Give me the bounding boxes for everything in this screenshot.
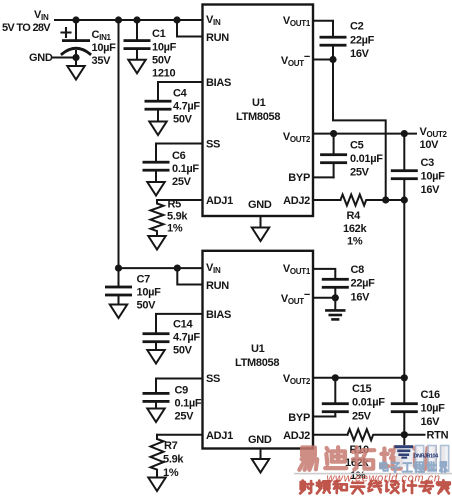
svg-text:C4: C4 — [173, 88, 188, 100]
svg-text:C3: C3 — [421, 157, 435, 169]
capacitor C2 — [320, 21, 375, 61]
svg-text:4.7µF: 4.7µF — [173, 101, 200, 113]
ground under CIN1 — [67, 58, 84, 80]
ground GND pin stage1 — [252, 216, 269, 241]
svg-text:GND: GND — [29, 52, 53, 64]
svg-text:16V: 16V — [350, 48, 370, 60]
svg-text:BIAS: BIAS — [206, 309, 231, 321]
node junction dot C3 top — [401, 130, 408, 137]
node junction dot C16 top — [401, 374, 408, 381]
ground under R7 — [148, 478, 165, 492]
svg-text:C1: C1 — [152, 28, 166, 40]
node junction dot C15 top — [332, 374, 339, 381]
svg-text:162k: 162k — [343, 223, 367, 235]
svg-text:25V: 25V — [352, 411, 372, 423]
svg-text:BYP: BYP — [288, 412, 310, 424]
svg-text:0.01µF: 0.01µF — [352, 397, 385, 409]
svg-text:25V: 25V — [172, 176, 192, 188]
svg-text:SS: SS — [206, 139, 220, 151]
resistor R4 — [341, 195, 405, 248]
svg-text:5.9k: 5.9k — [163, 454, 184, 466]
wire stage1 return down to stage2 — [403, 200, 405, 378]
svg-text:4.7µF: 4.7µF — [173, 332, 200, 344]
wire VOUT- stage2 — [313, 297, 335, 299]
node junction dot C5 top — [330, 130, 337, 137]
svg-text:10µF: 10µF — [421, 403, 446, 415]
svg-text:1210: 1210 — [152, 68, 175, 80]
watermark logo bars — [395, 445, 414, 459]
wire ADJ1 stage1 — [157, 199, 203, 201]
wire ADJ2 RTN stage2 — [313, 434, 348, 436]
svg-text:U1: U1 — [251, 343, 265, 355]
wire BIAS stage1 — [158, 82, 203, 100]
wire top input rail — [55, 19, 203, 21]
resistor R7 — [151, 435, 185, 479]
capacitor C16 — [391, 378, 445, 435]
svg-text:16V: 16V — [351, 292, 371, 304]
node junction dot C1 — [133, 16, 140, 23]
svg-text:5V TO 28V: 5V TO 28V — [2, 22, 51, 34]
svg-text:10µF: 10µF — [137, 287, 162, 299]
ground under C7 — [110, 305, 127, 319]
node junction dot VOUT- to ADJ2 — [382, 196, 389, 203]
ground under C1 — [128, 60, 145, 74]
node junction dot C7 — [115, 265, 122, 272]
node junction dot CIN1 bottom — [72, 54, 79, 61]
op-amp U1 module LTM8058 stage 2 — [203, 251, 314, 449]
svg-text:BIAS: BIAS — [206, 77, 231, 89]
svg-text:ADJ2: ADJ2 — [283, 430, 310, 442]
wire RUN stub stage1 — [177, 20, 203, 37]
watermark big red text 易迪拓培训 — [299, 448, 317, 470]
svg-text:22µF: 22µF — [351, 278, 376, 290]
wire VIN stage2 — [119, 267, 203, 269]
svg-text:0.1µF: 0.1µF — [175, 398, 202, 410]
wire VOUT1 stage2 — [313, 269, 335, 278]
svg-text:BYP: BYP — [288, 172, 310, 184]
watermark grey separator line — [294, 473, 452, 475]
node junction dot RUN stage2 — [174, 265, 181, 272]
wire SS stage1 — [156, 144, 203, 161]
svg-text:C14: C14 — [173, 319, 193, 331]
capacitor C4 — [145, 88, 201, 126]
svg-text:RUN: RUN — [206, 280, 229, 292]
svg-text:16V: 16V — [421, 184, 441, 196]
wire BYP stage2 — [313, 416, 335, 418]
svg-text:10µF: 10µF — [421, 171, 446, 183]
wire GND to CIN1 — [52, 57, 76, 59]
capacitor CIN1 — [62, 20, 117, 67]
capacitor C14 — [143, 319, 201, 357]
svg-text:U1: U1 — [252, 97, 266, 109]
wire VOUT- down and over — [333, 60, 386, 201]
svg-text:C7: C7 — [137, 274, 151, 286]
ground under C4 — [149, 122, 166, 136]
wire SS stage2 — [156, 379, 203, 393]
svg-text:50V: 50V — [173, 345, 193, 357]
ground under R5 — [148, 236, 165, 250]
svg-text:C15: C15 — [352, 383, 371, 395]
svg-text:10V: 10V — [420, 139, 440, 151]
svg-text:R4: R4 — [347, 210, 362, 222]
ground under C9 — [147, 409, 164, 423]
capacitor C6 — [143, 150, 200, 188]
node junction dot CIN1 — [72, 16, 79, 23]
svg-text:SS: SS — [206, 373, 220, 385]
svg-text:C8: C8 — [351, 264, 365, 276]
capacitor C9 — [143, 385, 202, 423]
node junction dot VOUT- C2 — [329, 56, 336, 63]
svg-text:C9: C9 — [175, 385, 189, 397]
svg-text:C16: C16 — [421, 389, 440, 401]
svg-text:50V: 50V — [137, 300, 157, 312]
watermark bottom red text 射频和天线设计专家 — [300, 481, 313, 494]
svg-text:C2: C2 — [350, 21, 364, 33]
node VOUT2 output label — [420, 126, 448, 151]
svg-text:DNRJR104: DNRJR104 — [414, 454, 440, 460]
svg-text:5.9k: 5.9k — [167, 211, 188, 223]
svg-text:50V: 50V — [152, 55, 172, 67]
svg-text:ADJ2: ADJ2 — [283, 195, 310, 207]
capacitor C3 — [391, 134, 445, 200]
svg-text:1%: 1% — [167, 223, 183, 235]
watermark pale training block — [396, 445, 413, 467]
wire VOUT- stage1 — [313, 59, 333, 61]
wire vertical feed to stage 2 — [118, 20, 120, 286]
wire BYP stage1 — [313, 176, 334, 178]
svg-text:LTM8058: LTM8058 — [235, 357, 279, 369]
ground under C6 — [147, 182, 164, 196]
watermark eeworld grey text 电子工程世界 — [380, 462, 388, 471]
wire VOUT2 rail stage1 — [313, 133, 416, 135]
node RTN label — [427, 430, 449, 442]
svg-text:RUN: RUN — [206, 32, 229, 44]
op-amp U1 module LTM8058 stage 1 — [203, 5, 314, 217]
svg-text:C5: C5 — [350, 140, 364, 152]
svg-text:1%: 1% — [347, 236, 363, 248]
node junction dot RUN — [173, 16, 180, 23]
capacitor C1 — [124, 20, 177, 80]
svg-text:LTM8058: LTM8058 — [236, 111, 280, 123]
capacitor C15 — [322, 378, 385, 423]
svg-text:25V: 25V — [350, 167, 370, 179]
svg-text:ADJ1: ADJ1 — [206, 195, 233, 207]
svg-text:16V: 16V — [421, 416, 441, 428]
node junction dot RTN — [401, 431, 408, 438]
ground under C14 — [147, 350, 164, 364]
capacitor C7 — [105, 274, 161, 312]
svg-text:0.01µF: 0.01µF — [350, 153, 383, 165]
ground chassis under RTN — [403, 435, 405, 445]
ground GND pin stage2 — [252, 449, 269, 473]
svg-text:0.1µF: 0.1µF — [172, 163, 199, 175]
svg-text:C6: C6 — [172, 150, 186, 162]
svg-text:R5: R5 — [168, 199, 182, 211]
capacitor C5 — [320, 134, 383, 179]
svg-text:22µF: 22µF — [350, 35, 375, 47]
svg-text:GND: GND — [248, 199, 272, 211]
svg-text:35V: 35V — [92, 55, 112, 67]
svg-text:GND: GND — [248, 434, 272, 446]
resistor R10 — [345, 429, 425, 482]
wire BIAS stage2 — [156, 314, 203, 332]
resistor R5 — [151, 199, 189, 236]
node GND input label — [29, 52, 53, 64]
wire ADJ2 stage1 — [313, 199, 341, 201]
svg-text:50V: 50V — [173, 114, 193, 126]
svg-text:10µF: 10µF — [152, 42, 177, 54]
wire ADJ1 stage2 — [157, 434, 203, 436]
node junction dot VOUT- C8 — [332, 294, 339, 301]
svg-text:RTN: RTN — [427, 430, 449, 442]
wire RUN stub stage2 — [177, 268, 202, 284]
svg-text:ADJ1: ADJ1 — [206, 430, 233, 442]
ground signal ground under C8 — [326, 298, 344, 320]
svg-text:R7: R7 — [164, 440, 178, 452]
node VIN input label — [2, 9, 51, 34]
watermark pale blue bars — [416, 446, 449, 472]
wire VOUT1 stage1 — [313, 21, 333, 36]
wire VOUT2 rail stage2 — [313, 377, 404, 379]
svg-text:25V: 25V — [175, 411, 195, 423]
capacitor C8 — [322, 264, 375, 304]
svg-text:10µF: 10µF — [92, 42, 117, 54]
node junction dot vertical feed — [115, 16, 122, 23]
node junction dot C3 bottom — [401, 196, 408, 203]
